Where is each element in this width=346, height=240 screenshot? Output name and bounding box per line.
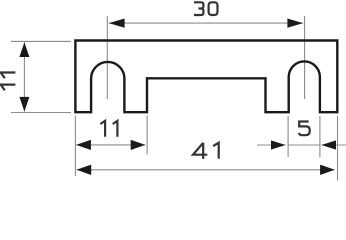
extension line top left xyxy=(11,40,71,42)
extension line right slot right wall xyxy=(319,116,321,158)
arrowhead 11b left xyxy=(76,140,91,150)
arrowhead 30 right xyxy=(287,19,303,28)
dimension tail 5 left xyxy=(257,144,286,146)
dimension line 30 xyxy=(109,22,303,24)
dimension text 41 digit 4 xyxy=(193,143,207,159)
extension line notch left wall xyxy=(146,116,148,155)
dimension text 30 digit 0 xyxy=(209,2,218,15)
extension line bottom left xyxy=(11,112,71,114)
arrowhead 5 right xyxy=(321,140,336,149)
dimension text 41 digit 1 xyxy=(213,143,219,159)
extension line part right bottom xyxy=(337,116,339,181)
dimension line 11 vertical xyxy=(23,42,25,111)
extension line right slot center (node B) xyxy=(304,16,306,99)
dimension line 41 xyxy=(77,169,335,171)
part outline xyxy=(75,41,337,113)
dimension text 30 digit 3 xyxy=(194,2,203,15)
dimension text 11 vertical digit 1 upper xyxy=(1,73,16,79)
arrowhead 30 left xyxy=(109,19,125,28)
dimension line 11 bottom xyxy=(76,144,145,146)
dimension text 11 bottom digit 1 second xyxy=(113,121,118,137)
arrowhead 5 left xyxy=(271,140,286,149)
arrowhead 41 left xyxy=(77,165,92,175)
dimension line 5 connector xyxy=(288,144,320,146)
extension line left slot center (node A) xyxy=(106,16,108,99)
extension line right slot left wall xyxy=(287,116,289,157)
dimension tail 5 right xyxy=(321,144,346,146)
dimension text 5 xyxy=(299,122,310,136)
arrowhead 11v top xyxy=(19,42,29,57)
extension line part left bottom xyxy=(74,116,76,176)
dimension text 11 vertical digit 1 lower xyxy=(1,85,16,91)
arrowhead 11v bottom xyxy=(19,97,29,112)
arrowhead 11b right xyxy=(131,140,146,150)
arrowhead 41 right xyxy=(320,165,335,175)
dimension text 11 bottom digit 1 first xyxy=(100,121,105,137)
